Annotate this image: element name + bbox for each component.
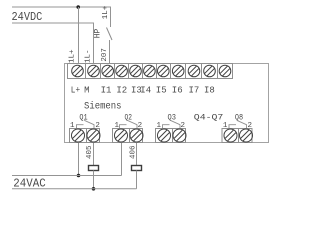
wire fuse 405 to lower rail [93, 171, 95, 189]
terminal screw I4 [141, 63, 157, 79]
wire Q2 pin2 to fuse [136, 143, 138, 166]
device tag bracket Q1 [77, 120, 95, 128]
terminal screw L+ [69, 63, 85, 79]
PLC module body outline [65, 64, 269, 143]
switch HP blade [107, 28, 113, 41]
terminal screw I5 [155, 63, 171, 79]
relay output block Q1 [70, 129, 100, 143]
svg-text:I6: I6 [172, 85, 183, 95]
relay output block Q2 [113, 129, 143, 143]
svg-text:405: 405 [86, 145, 94, 159]
wire net 207 switch to terminal I1 [109, 40, 111, 64]
svg-text:Siemens: Siemens [84, 101, 122, 113]
svg-text:L+: L+ [71, 85, 80, 95]
wire Q1 pin2 to fuse [93, 143, 95, 166]
device tag bracket Q2 [120, 120, 138, 128]
svg-text:I2: I2 [116, 85, 127, 95]
fuse F405 [89, 166, 99, 171]
svg-text:I7: I7 [189, 85, 200, 95]
svg-text:I4: I4 [140, 85, 151, 95]
fuse F406 [132, 166, 142, 171]
terminal screw I1 [99, 63, 115, 79]
svg-text:I1: I1 [101, 85, 112, 95]
terminal screw Q3 pin 2 [170, 126, 188, 144]
svg-text:1L+: 1L+ [69, 49, 77, 63]
terminal screw spare [217, 63, 233, 79]
svg-text:207: 207 [101, 48, 109, 62]
terminal screw Q2 pin 2 [127, 126, 145, 144]
wire 24VAC lower rail [12, 188, 137, 190]
svg-text:Q4-Q7: Q4-Q7 [194, 113, 224, 122]
wire 24VAC upper rail [12, 175, 122, 177]
circuit schematic: Siemens PLC wiring diagram [0, 0, 284, 193]
terminal screw Q1 pin 2 [84, 126, 102, 144]
svg-text:24VAC: 24VAC [13, 177, 45, 191]
terminal screw M [85, 63, 101, 79]
device tag bracket Q3 [163, 120, 181, 128]
terminal screw I7 [186, 63, 202, 79]
terminal screw I8 [201, 63, 217, 79]
svg-text:I5: I5 [156, 85, 167, 95]
wire Q1 pin1 to 24VAC rail [78, 143, 80, 176]
relay output block Q8 [222, 129, 252, 143]
terminal screw Q2 pin 1 [112, 126, 130, 144]
terminal screw Q3 pin 1 [155, 126, 173, 144]
terminal screw I2 [113, 63, 129, 79]
device tag bracket Q8 [229, 120, 247, 128]
node junction on positive rail [76, 5, 80, 9]
node junction Q1 / 24VAC rail [77, 174, 81, 178]
wire net 1L+ junction to terminal L+ [78, 7, 80, 64]
svg-text:406: 406 [130, 145, 138, 159]
svg-text:1L+: 1L+ [102, 5, 110, 19]
terminal screw Q1 pin 1 [69, 126, 87, 144]
terminal screw I6 [170, 63, 186, 79]
node junction fuse405 / lower rail [92, 187, 96, 191]
svg-text:1L-: 1L- [85, 49, 93, 63]
relay output block Q3 [156, 129, 186, 143]
svg-text:M: M [84, 85, 89, 95]
wire 24VDC positive rail with corner to switch [12, 7, 111, 27]
input terminal strip frame [68, 64, 233, 79]
wire fuse 406 corner to lower rail [136, 171, 138, 189]
svg-text:I8: I8 [204, 85, 215, 95]
terminal screw Q8 pin 2 [237, 126, 255, 144]
wire Q2 pin1 corner to 24VAC rail [121, 143, 123, 176]
wire 24VDC return rail to terminal M [12, 23, 94, 64]
terminal screw Q8 pin 1 [221, 126, 239, 144]
svg-text:24VDC: 24VDC [12, 10, 43, 24]
svg-text:HP: HP [93, 28, 102, 38]
terminal screw I3 [127, 63, 143, 79]
